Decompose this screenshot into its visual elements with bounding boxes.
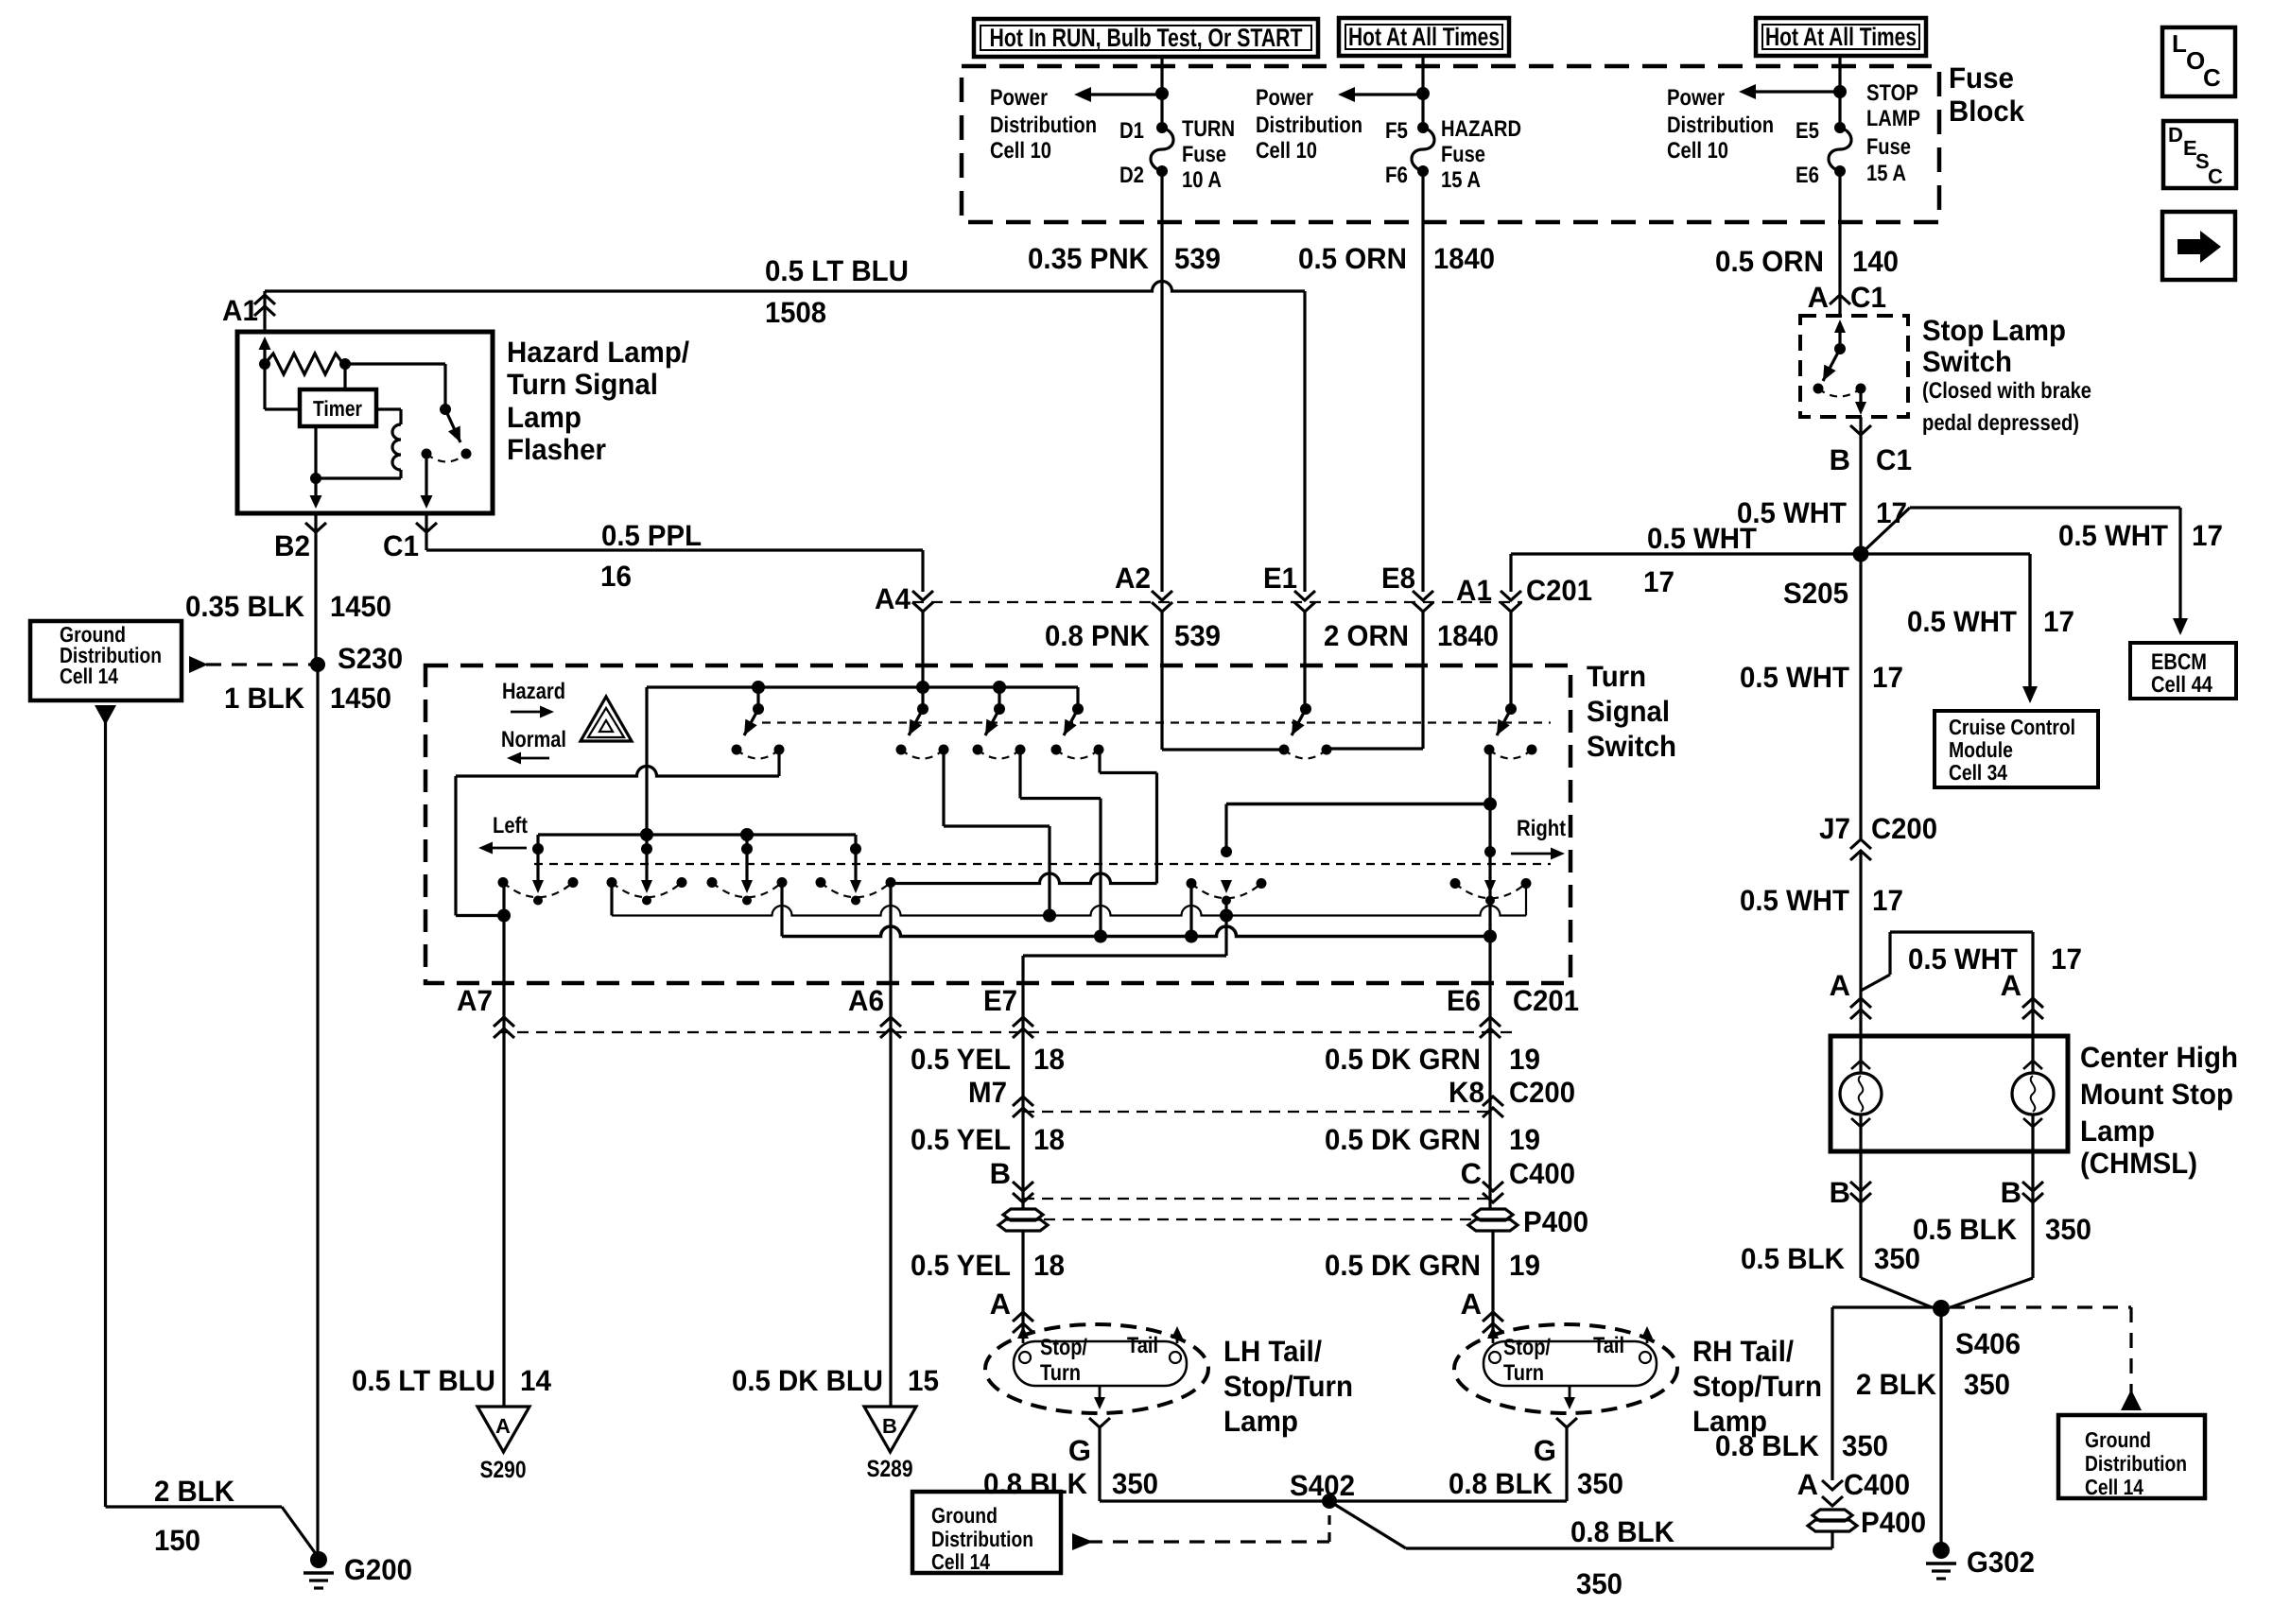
svg-text:(Closed with brake: (Closed with brake (1922, 378, 2091, 404)
svg-text:1450: 1450 (330, 590, 391, 623)
svg-text:0.5 DK GRN: 0.5 DK GRN (1325, 1123, 1481, 1156)
stop switch output arrow down (1859, 389, 1862, 402)
RH Tail/Stop/Turn Lamp (1454, 1324, 1677, 1413)
node hazard sw2 wire to thin bus (1043, 909, 1056, 923)
arrow to Power Distribution Cell 10 (hazard) (1355, 93, 1423, 95)
wire E6 down inside box (1488, 750, 1491, 983)
flasher internal node (259, 358, 270, 370)
svg-text:0.5 DK BLU: 0.5 DK BLU (732, 1364, 883, 1397)
dashed reference S406 to ground box (right) (1950, 1305, 2131, 1308)
svg-text:A: A (2001, 969, 2021, 1002)
svg-text:B: B (1830, 443, 1850, 476)
svg-text:Power: Power (1256, 85, 1313, 111)
svg-text:350: 350 (1112, 1467, 1158, 1500)
svg-text:D: D (2168, 123, 2183, 147)
stop switch pivot (1834, 343, 1846, 354)
left-turn switch 2 (pivot 684) (641, 843, 652, 855)
svg-text:(CHMSL): (CHMSL) (2080, 1147, 2197, 1180)
relay contact dashed arc (426, 454, 466, 462)
wire hazard sw4 contact jog to y=934.5 bus (1098, 750, 1101, 773)
wire E8 into switch box (1421, 611, 1424, 749)
svg-text:P400: P400 (1523, 1205, 1588, 1238)
svg-text:350: 350 (1874, 1242, 1920, 1275)
svg-text:B: B (990, 1157, 1011, 1190)
svg-text:Distribution: Distribution (931, 1527, 1033, 1551)
connector B C1 (1850, 425, 1871, 435)
power source box: Hot At All Times (stop lamp fuse) (1756, 18, 1926, 56)
svg-text:Left: Left (493, 813, 528, 838)
svg-text:Hazard Lamp/: Hazard Lamp/ (507, 336, 689, 369)
svg-text:C400: C400 (1509, 1157, 1575, 1190)
hazard switch 2 (pivot 976) (921, 687, 924, 709)
svg-text:0.35 BLK: 0.35 BLK (185, 590, 305, 623)
wire E7 below box (1021, 983, 1024, 1209)
svg-text:0.5 DK GRN: 0.5 DK GRN (1325, 1249, 1481, 1282)
svg-text:0.5 WHT: 0.5 WHT (1647, 522, 1757, 555)
switch position dashed line (lower) (534, 863, 1551, 865)
svg-text:B: B (882, 1414, 897, 1438)
svg-text:1840: 1840 (1433, 242, 1495, 275)
nodes on hazard bus (752, 681, 765, 694)
splice S205 (1853, 546, 1869, 562)
wire bus down to left-turn bus (645, 687, 648, 835)
wire LH lamp ground (1098, 1427, 1101, 1501)
wire C201 A1 to S205 (0.5 WHT 17) (1511, 552, 1861, 555)
svg-text:0.8 PNK: 0.8 PNK (1045, 619, 1151, 652)
wire E6 below box (1488, 983, 1491, 1209)
lower bus y=990.5 from left-turn sw3 contact to E6 wire (780, 883, 783, 937)
ground G302 (1933, 1542, 1950, 1559)
wire 0.5 PPL 16 from flasher C1 to switch A4 (426, 548, 923, 551)
svg-text:C400: C400 (1844, 1468, 1910, 1501)
node hazard sw3 wire to lower bus (1094, 930, 1107, 943)
dashed reference S402 to ground box (1072, 1533, 1093, 1550)
svg-text:0.5 LT BLU: 0.5 LT BLU (765, 254, 909, 287)
triangle connector B / S289 (864, 1407, 916, 1452)
svg-text:2 BLK: 2 BLK (154, 1475, 235, 1508)
svg-text:M7: M7 (968, 1076, 1007, 1109)
wire from Hot In RUN box to TURN fuse (1160, 56, 1163, 128)
svg-text:Distribution: Distribution (1667, 112, 1774, 138)
CHMSL right bulb (2031, 1036, 2034, 1073)
svg-text:Fuse: Fuse (1182, 142, 1226, 167)
svg-text:C200: C200 (1509, 1076, 1575, 1109)
left-turn bus (538, 833, 856, 836)
svg-text:E1: E1 (1263, 561, 1297, 595)
svg-text:TURN: TURN (1182, 116, 1235, 142)
wire A2 into switch box (1160, 611, 1163, 750)
svg-text:17: 17 (1872, 884, 1903, 917)
stop switch arm (1823, 349, 1840, 381)
svg-text:17: 17 (2051, 942, 2082, 976)
wire A6 from switch to S289 (889, 883, 892, 1408)
wire resistor node to Timer top (343, 364, 346, 389)
svg-text:J7: J7 (1819, 812, 1850, 845)
svg-text:0.5 YEL: 0.5 YEL (911, 1249, 1011, 1282)
svg-text:0.5 WHT: 0.5 WHT (1740, 661, 1849, 694)
wire RH lamp ground (1565, 1427, 1568, 1501)
svg-text:A4: A4 (875, 582, 911, 615)
triangle connector A / S290 (477, 1407, 529, 1452)
svg-text:LAMP: LAMP (1866, 106, 1920, 131)
splice S230 (310, 657, 325, 672)
svg-text:150: 150 (154, 1524, 200, 1557)
svg-text:Cell 10: Cell 10 (990, 138, 1051, 164)
wire stop switch B to S205 (1859, 417, 1862, 554)
svg-text:E6: E6 (1796, 163, 1819, 188)
hazard feed bus in switch (647, 685, 1078, 688)
ground G200 (310, 1551, 327, 1568)
svg-text:Flasher: Flasher (507, 433, 606, 466)
svg-text:Timer: Timer (313, 396, 362, 421)
connector B2 below flasher (314, 513, 317, 665)
svg-text:Tail: Tail (1127, 1333, 1158, 1358)
svg-text:Lamp: Lamp (1223, 1405, 1298, 1438)
svg-text:S290: S290 (480, 1457, 527, 1483)
svg-text:Fuse: Fuse (1866, 134, 1911, 160)
Ground Distribution Cell 14 box (left) (30, 621, 182, 700)
DESC legend box (2163, 121, 2236, 188)
branch wire to CHMSL right bulb (0.5 WHT 17) (1861, 975, 1890, 991)
svg-text:17: 17 (1643, 565, 1674, 598)
wire B2 to G200 (316, 665, 319, 1558)
wire S205 to Cruise Control (0.5 WHT 17) (1861, 552, 2030, 555)
svg-text:Stop/: Stop/ (1040, 1335, 1087, 1360)
wire right-turn sw1 down to E7 jog (1224, 901, 1227, 957)
svg-text:18: 18 (1033, 1123, 1065, 1156)
Center High Mount Stop Lamp box (1831, 1036, 2068, 1151)
svg-text:E5: E5 (1796, 118, 1819, 144)
wire TURN fuse down to connector A2 (1160, 171, 1163, 592)
wire A1 C201 into switch box (1509, 611, 1512, 709)
right-turn switch 2 (pivot 1576) (1484, 846, 1496, 857)
node on HAZARD feed (1416, 87, 1430, 100)
svg-text:0.5 BLK: 0.5 BLK (1913, 1213, 2018, 1246)
wire 0.5 LT BLU 1508 from flasher A1 to E1 (hops over PNK) (265, 282, 1305, 292)
svg-text:1508: 1508 (765, 296, 826, 329)
svg-text:Cell 10: Cell 10 (1256, 138, 1317, 164)
svg-text:Module: Module (1949, 737, 2013, 762)
svg-text:350: 350 (1576, 1567, 1622, 1600)
svg-text:0.5 BLK: 0.5 BLK (1741, 1242, 1846, 1275)
svg-text:Cell 14: Cell 14 (931, 1549, 990, 1574)
svg-text:G: G (1534, 1434, 1556, 1467)
svg-text:C201: C201 (1526, 574, 1592, 607)
P400 dashed line and label (1044, 1218, 1472, 1220)
svg-text:D2: D2 (1119, 163, 1144, 188)
svg-text:C: C (2208, 164, 2223, 188)
flasher internal node (resistor right) (339, 358, 351, 370)
Stop Lamp Switch dashed box (1800, 316, 1908, 417)
pass-through P400 (left) (1003, 1209, 1043, 1220)
wire E7 down inside box (1021, 956, 1024, 983)
svg-text:Cruise Control: Cruise Control (1949, 715, 2075, 739)
splice S402 (1322, 1494, 1337, 1509)
power source box: Hot In RUN, Bulb Test, Or START (974, 19, 1318, 57)
svg-text:S289: S289 (867, 1456, 913, 1482)
svg-text:Cell 34: Cell 34 (1949, 760, 2007, 785)
svg-text:1840: 1840 (1437, 619, 1499, 652)
hazard switch 5 (pivot 1381, fed by E1) (1300, 703, 1311, 715)
wire coil bottom to timer-bottom node (316, 476, 401, 479)
hazard switch 4 (pivot 1140) (1076, 687, 1079, 709)
svg-text:Cell 10: Cell 10 (1667, 138, 1728, 164)
connector G (RH lamp) (1556, 1418, 1577, 1427)
svg-text:0.5 WHT: 0.5 WHT (2058, 519, 2168, 552)
svg-text:19: 19 (1509, 1123, 1540, 1156)
wire from ground box down (2 BLK 150) (95, 705, 116, 725)
relay contacts (422, 449, 432, 459)
svg-text:A: A (1808, 281, 1829, 314)
node on A7 wire (497, 909, 511, 923)
svg-text:16: 16 (600, 560, 632, 593)
hazard position dashed line (762, 721, 1551, 723)
svg-text:A: A (495, 1414, 511, 1438)
wire J7 to CHMSL (0.5 WHT 17) (1859, 853, 1862, 1036)
wire hazard sw1 contact to left web (y=821) (777, 750, 780, 776)
svg-text:Lamp: Lamp (507, 401, 581, 434)
svg-text:Distribution: Distribution (2085, 1451, 2187, 1476)
svg-text:Signal: Signal (1587, 695, 1670, 728)
svg-text:C1: C1 (1850, 281, 1886, 314)
svg-text:0.35 PNK: 0.35 PNK (1028, 242, 1150, 275)
wire S406 left and down to P400 (0.8 BLK 350) (1832, 1305, 1941, 1308)
svg-text:Stop/Turn: Stop/Turn (1223, 1370, 1353, 1403)
fuse block dashed box (962, 66, 1939, 222)
connector line C201 lower (dashed) (498, 1031, 1513, 1033)
nodes on lower bus (1185, 930, 1198, 943)
thin bus y=968.5 from left-turn sw2 contact to right-turn sw2 contact (610, 883, 613, 916)
svg-text:STOP: STOP (1866, 80, 1918, 106)
svg-text:A: A (990, 1287, 1011, 1321)
svg-text:A2: A2 (1115, 561, 1151, 595)
CHMSL left bulb (1859, 1036, 1862, 1073)
svg-text:Stop/: Stop/ (1503, 1335, 1551, 1360)
svg-text:0.8 BLK: 0.8 BLK (1715, 1429, 1820, 1462)
relay switch arm (445, 409, 460, 442)
svg-text:350: 350 (1964, 1368, 2010, 1401)
right-turn switch 1 (pivot 1297) (1221, 846, 1232, 857)
svg-text:Ground: Ground (2085, 1427, 2151, 1452)
svg-text:B: B (2001, 1176, 2021, 1209)
svg-text:A1: A1 (222, 294, 258, 327)
wire contact to C1 with down arrow (425, 454, 427, 495)
svg-text:350: 350 (1842, 1429, 1888, 1462)
arrow to Power Distribution Cell 10 (stop) (1756, 90, 1840, 93)
svg-text:Right: Right (1517, 816, 1566, 841)
svg-text:539: 539 (1174, 242, 1221, 275)
svg-text:Hot At All Times: Hot At All Times (1348, 23, 1500, 51)
svg-text:17: 17 (2192, 519, 2223, 552)
wire E6 branch y=850.5 to right-turn sw1 (1226, 803, 1490, 806)
svg-text:15: 15 (908, 1364, 939, 1397)
relay coil from Timer right (376, 407, 401, 410)
left-turn switch 1 (pivot 569) (532, 843, 544, 855)
svg-text:C201: C201 (1513, 984, 1579, 1017)
svg-text:Mount Stop: Mount Stop (2080, 1078, 2233, 1111)
connector C1 below flasher (425, 513, 427, 550)
svg-text:Distribution: Distribution (990, 112, 1097, 138)
svg-text:350: 350 (2045, 1213, 2091, 1246)
node on E6 vertical at y=850.5 (1484, 798, 1497, 811)
svg-text:Cell 14: Cell 14 (60, 664, 118, 688)
wire Timer bottom to B2 node (314, 426, 317, 478)
svg-text:G302: G302 (1967, 1546, 2035, 1579)
svg-text:539: 539 (1174, 619, 1221, 652)
svg-text:18: 18 (1033, 1249, 1065, 1282)
left-turn switch 4 (pivot 905) (850, 843, 861, 855)
svg-text:0.8 BLK: 0.8 BLK (983, 1467, 1088, 1500)
svg-text:0.5 ORN: 0.5 ORN (1715, 245, 1824, 278)
svg-text:Fuse: Fuse (1441, 142, 1485, 167)
svg-text:Ground: Ground (931, 1503, 998, 1528)
svg-text:E7: E7 (983, 984, 1017, 1017)
svg-text:F6: F6 (1385, 163, 1408, 188)
svg-text:0.5 PPL: 0.5 PPL (601, 519, 702, 552)
node right-turn sw1 wire on thin bus (1220, 909, 1233, 923)
wire STOP LAMP fuse down to stop lamp switch pin A (1838, 171, 1841, 316)
svg-text:19: 19 (1509, 1043, 1540, 1076)
svg-text:Power: Power (1667, 85, 1725, 111)
wire resistor to relay pivot (345, 362, 445, 365)
wire S205 to EBCM (0.5 WHT 17) (1861, 508, 1910, 554)
svg-text:Turn: Turn (1503, 1360, 1544, 1386)
power source box: Hot At All Times (hazard fuse) (1339, 18, 1509, 56)
hazard switch 3 (pivot 1057) (998, 687, 1000, 709)
svg-text:C: C (1461, 1157, 1482, 1190)
svg-text:18: 18 (1033, 1043, 1065, 1076)
svg-text:P400: P400 (1861, 1506, 1926, 1539)
dashed reference to Ground Distribution Cell 14 (206, 663, 318, 665)
bus y=934.5 from A6 contact (hops over 1110,1164) (891, 873, 1157, 884)
svg-text:B2: B2 (274, 529, 310, 562)
svg-text:17: 17 (1872, 661, 1903, 694)
svg-text:A: A (1797, 1468, 1818, 1501)
svg-text:G: G (1068, 1434, 1091, 1467)
svg-text:0.5 YEL: 0.5 YEL (911, 1043, 1011, 1076)
svg-text:Stop Lamp: Stop Lamp (1922, 314, 2066, 347)
svg-text:A1: A1 (1456, 574, 1492, 607)
svg-text:140: 140 (1852, 245, 1899, 278)
flasher resistor (265, 354, 343, 374)
svg-text:E6: E6 (1447, 984, 1481, 1017)
wire A4 into switch box (921, 611, 924, 687)
svg-text:C: C (2203, 63, 2221, 92)
LOC legend box (2162, 27, 2235, 96)
wire E6 to RH lamp (1491, 1230, 1494, 1333)
svg-text:S402: S402 (1290, 1469, 1355, 1502)
svg-text:D1: D1 (1119, 118, 1144, 144)
svg-text:Power: Power (990, 85, 1048, 111)
connector G (LH lamp) (1089, 1418, 1110, 1427)
svg-text:Center High: Center High (2080, 1041, 2238, 1074)
svg-text:0.5 WHT: 0.5 WHT (1740, 884, 1849, 917)
svg-text:Stop/Turn: Stop/Turn (1692, 1370, 1822, 1403)
arrow to Power Distribution Cell 10 (left) (1091, 93, 1162, 95)
wires converge to S406 (1861, 1278, 1932, 1307)
hazard warning triangle symbol (581, 697, 632, 741)
node on STOP LAMP feed (1833, 85, 1847, 98)
wire hazard sw2 contact down-right (y=874) (942, 750, 945, 826)
node A4 feed on bus (916, 681, 929, 694)
svg-text:C1: C1 (1876, 443, 1912, 476)
stop switch internal arrow up (1838, 333, 1841, 349)
svg-text:0.5 WHT: 0.5 WHT (1907, 605, 2017, 638)
Turn Signal Switch dashed box (425, 665, 1570, 983)
svg-text:0.5 LT BLU: 0.5 LT BLU (352, 1364, 495, 1397)
svg-text:Hot At All Times: Hot At All Times (1765, 23, 1917, 51)
wire P400 to S402 line (1831, 1530, 1833, 1548)
svg-text:pedal depressed): pedal depressed) (1922, 410, 2079, 436)
svg-text:15 A: 15 A (1441, 167, 1481, 193)
svg-text:G200: G200 (344, 1553, 412, 1586)
svg-text:Distribution: Distribution (1256, 112, 1362, 138)
svg-text:EBCM: EBCM (2151, 649, 2207, 675)
svg-text:Turn Signal: Turn Signal (507, 368, 658, 401)
svg-text:RH Tail/: RH Tail/ (1692, 1335, 1794, 1368)
svg-text:19: 19 (1509, 1249, 1540, 1282)
node on TURN feed (1155, 87, 1169, 100)
svg-text:10 A: 10 A (1182, 167, 1222, 193)
wire S402 to P400 (0.8 BLK 350) (1329, 1501, 1406, 1548)
wire S205 down to J7 (0.5 WHT 17) (1859, 554, 1862, 841)
Ground Distribution Cell 14 box (right) (2058, 1415, 2205, 1498)
svg-text:350: 350 (1577, 1467, 1623, 1500)
svg-text:F5: F5 (1385, 118, 1408, 144)
Cruise Control Module Cell 34 box (1935, 711, 2098, 787)
svg-text:0.8 BLK: 0.8 BLK (1570, 1515, 1675, 1548)
svg-text:Turn: Turn (1040, 1360, 1081, 1386)
svg-text:A: A (1830, 969, 1850, 1002)
svg-text:E8: E8 (1381, 561, 1415, 595)
svg-text:0.5 YEL: 0.5 YEL (911, 1123, 1011, 1156)
svg-text:Turn: Turn (1587, 660, 1646, 693)
svg-text:2 ORN: 2 ORN (1324, 619, 1409, 652)
svg-text:A6: A6 (848, 984, 884, 1017)
svg-text:Tail: Tail (1593, 1333, 1624, 1358)
wire from Hot At All Times box to HAZARD fuse (1421, 56, 1424, 128)
LH Tail/Stop/Turn Lamp (985, 1324, 1208, 1413)
wire HAZARD fuse down to connector E8 (1421, 171, 1424, 592)
svg-text:S406: S406 (1955, 1327, 2021, 1360)
svg-text:C1: C1 (383, 529, 419, 562)
Ground Distribution Cell 14 box (middle) (912, 1492, 1061, 1573)
svg-text:15 A: 15 A (1866, 161, 1906, 186)
Timer box (300, 389, 376, 426)
svg-text:17: 17 (2043, 605, 2074, 638)
hazard switch 1 (pivot 802) (756, 687, 759, 709)
wire hazard sw3 contact down-right (y=844.5) (1018, 750, 1021, 799)
pass-through P400 (right) (1473, 1209, 1513, 1220)
svg-text:Cell 14: Cell 14 (2085, 1475, 2143, 1499)
svg-text:Normal: Normal (501, 727, 566, 752)
splice S406 (1933, 1300, 1950, 1317)
EBCM Cell 44 box (2130, 643, 2236, 699)
svg-text:A7: A7 (457, 984, 493, 1017)
svg-text:1 BLK: 1 BLK (224, 682, 305, 715)
connector line C201 (dashed) (912, 601, 1522, 603)
arrow down to B2 (314, 478, 317, 495)
wire from Hot At All Times box to STOP LAMP fuse (1838, 56, 1841, 128)
wire E1 into switch box (1303, 611, 1306, 709)
svg-text:C200: C200 (1871, 812, 1937, 845)
svg-text:Hazard: Hazard (502, 679, 565, 704)
svg-text:Fuse: Fuse (1949, 61, 2014, 95)
svg-text:B: B (1830, 1176, 1850, 1209)
svg-text:K8: K8 (1449, 1076, 1484, 1109)
relay pivot (440, 404, 451, 415)
svg-text:2 BLK: 2 BLK (1856, 1368, 1937, 1401)
